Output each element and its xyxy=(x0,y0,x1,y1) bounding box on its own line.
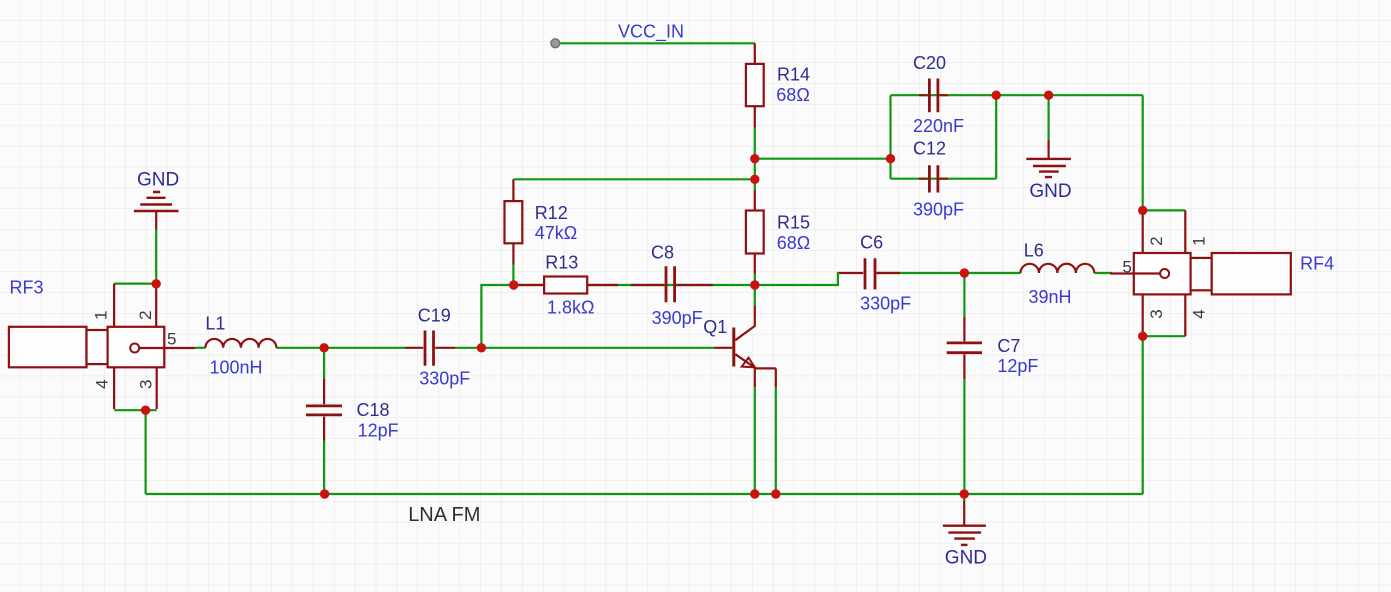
svg-text:C12: C12 xyxy=(913,139,946,159)
wire RF3 top pins bar xyxy=(114,283,156,285)
svg-text:3: 3 xyxy=(1147,309,1166,318)
resistor R13 xyxy=(513,277,618,294)
pin VCC_IN port xyxy=(551,39,560,48)
svg-text:L1: L1 xyxy=(205,313,225,333)
resistor R12 xyxy=(505,179,523,264)
wire RF3 to top GND xyxy=(155,230,157,284)
svg-text:RF4: RF4 xyxy=(1300,254,1334,274)
svg-text:C6: C6 xyxy=(860,232,883,252)
svg-text:C19: C19 xyxy=(418,306,451,326)
svg-text:68Ω: 68Ω xyxy=(776,85,809,105)
svg-text:68Ω: 68Ω xyxy=(777,233,810,253)
wire C7 bottom to ground rail xyxy=(963,379,965,494)
junction C20 right rail top xyxy=(992,91,1001,100)
junction RF4 bottom xyxy=(1138,332,1147,341)
svg-text:1: 1 xyxy=(92,311,111,320)
wire L6 to RF4 pin5 xyxy=(1094,272,1112,274)
junction C19 right node xyxy=(477,343,486,352)
inductor L6 xyxy=(1021,264,1095,273)
connector RF3 xyxy=(9,284,195,409)
wire RF3 pin5 to L1 xyxy=(195,347,205,349)
svg-text:C8: C8 xyxy=(651,242,674,262)
svg-text:39nH: 39nH xyxy=(1029,287,1072,307)
wire C20/C12 right rail xyxy=(995,95,997,179)
wire R15 bottom / Q1 collector node xyxy=(754,274,756,306)
wire C18 to rail xyxy=(323,441,325,495)
svg-text:C18: C18 xyxy=(357,400,390,420)
svg-text:330pF: 330pF xyxy=(419,368,470,388)
svg-text:12pF: 12pF xyxy=(358,421,399,441)
wire C20/C12 left rail xyxy=(889,95,891,179)
junction L1 C18 node xyxy=(319,343,328,352)
transistor Q1 xyxy=(714,306,776,388)
wire RF4 top pins bar xyxy=(1143,209,1186,211)
wire RF4 bottom pins bar xyxy=(1143,335,1186,337)
wire R12 bottom to node xyxy=(512,265,514,286)
junction rail emitter left xyxy=(750,489,759,498)
wire node down to C18 xyxy=(323,348,325,379)
resistor R15 xyxy=(746,190,764,274)
wire bottom GND stem xyxy=(963,494,965,501)
capacitor C18 xyxy=(306,378,342,440)
wire RF4 bottom to rail xyxy=(1142,336,1144,494)
junction R14 bottom to R12 xyxy=(750,175,759,184)
wire collector node elbow to C6 xyxy=(755,273,841,285)
svg-text:1.8kΩ: 1.8kΩ xyxy=(547,298,594,318)
wire bottom ground rail xyxy=(146,493,1143,495)
wire C12 line xyxy=(891,178,997,180)
wire node down to C7 xyxy=(963,273,965,317)
svg-text:GND: GND xyxy=(1029,181,1071,202)
svg-text:C7: C7 xyxy=(997,336,1020,356)
junction C20 left rail xyxy=(886,154,895,163)
connector RF4 xyxy=(1110,210,1291,336)
svg-text:3: 3 xyxy=(137,380,156,389)
svg-text:2: 2 xyxy=(136,310,155,319)
inductor L1 xyxy=(205,339,276,348)
capacitor C8 xyxy=(631,266,713,302)
capacitor C6 xyxy=(839,258,900,289)
wire C19 to Q1 base xyxy=(455,347,714,349)
svg-text:GND: GND xyxy=(137,170,179,191)
wire node to C20 left rail xyxy=(755,158,891,160)
svg-text:330pF: 330pF xyxy=(860,293,911,313)
wire GND mid stem xyxy=(1047,95,1049,140)
wire C20 top line to RF4 rail xyxy=(891,94,1143,96)
junction rail C18 xyxy=(320,489,329,498)
capacitor C12 xyxy=(919,165,948,192)
svg-text:5: 5 xyxy=(1122,258,1131,277)
ground top-left xyxy=(134,192,179,230)
svg-text:2: 2 xyxy=(1147,236,1166,245)
capacitor C19 xyxy=(405,331,455,366)
capacitor C7 xyxy=(947,317,982,380)
junction rail GND xyxy=(960,489,969,498)
svg-text:R12: R12 xyxy=(535,203,568,223)
svg-text:1: 1 xyxy=(1190,236,1209,245)
svg-text:4: 4 xyxy=(1190,309,1209,318)
wire node left elbow down to base line xyxy=(481,285,513,348)
wire R14/R15 node to R12 top xyxy=(513,178,754,180)
svg-text:R14: R14 xyxy=(777,65,810,85)
wire RF3 bottom to rail xyxy=(145,410,147,494)
junction rail emitter right xyxy=(771,489,780,498)
svg-text:5: 5 xyxy=(167,329,176,348)
resistor R14 xyxy=(746,43,764,127)
junction R13 node xyxy=(509,280,518,289)
svg-text:VCC_IN: VCC_IN xyxy=(618,22,684,43)
wire R13 C8 line xyxy=(513,284,754,286)
wire top rail down to RF4 pin2 xyxy=(1142,95,1144,210)
wire C6 to L6 xyxy=(876,272,1021,274)
svg-text:R13: R13 xyxy=(545,253,578,273)
wire RF3 bottom pins bar xyxy=(114,409,157,411)
svg-text:C20: C20 xyxy=(913,53,946,73)
wire Q1 emitter right down xyxy=(775,387,777,494)
junction GND mid top xyxy=(1044,91,1053,100)
ground bottom xyxy=(943,501,986,545)
svg-text:390pF: 390pF xyxy=(913,200,964,220)
svg-text:RF3: RF3 xyxy=(10,278,44,298)
svg-text:GND: GND xyxy=(945,548,987,569)
svg-text:R15: R15 xyxy=(777,213,810,233)
wire VCC_IN net xyxy=(558,42,755,44)
svg-text:100nH: 100nH xyxy=(210,357,263,377)
wire L1 to C19 xyxy=(276,347,405,349)
junction RF4 top xyxy=(1138,206,1147,215)
svg-text:L6: L6 xyxy=(1024,240,1044,260)
junction RF3 bottom xyxy=(141,406,150,415)
wire R14 bottom to R15 top xyxy=(754,128,756,191)
svg-text:LNA FM: LNA FM xyxy=(408,504,480,526)
svg-text:47kΩ: 47kΩ xyxy=(535,223,577,243)
capacitor C20 xyxy=(919,79,948,113)
svg-text:220nF: 220nF xyxy=(913,116,964,136)
wire Q1 emitter left down xyxy=(754,387,756,494)
svg-text:4: 4 xyxy=(92,379,111,388)
junction R14 bottom to C20 xyxy=(750,154,759,163)
svg-text:390pF: 390pF xyxy=(652,308,703,328)
svg-text:Q1: Q1 xyxy=(703,317,727,337)
junction C6 C7 L6 node xyxy=(960,268,969,277)
junction Q1 collector node xyxy=(750,280,759,289)
ground mid xyxy=(1026,140,1071,177)
junction RF3 top xyxy=(152,279,161,288)
svg-text:12pF: 12pF xyxy=(997,356,1038,376)
